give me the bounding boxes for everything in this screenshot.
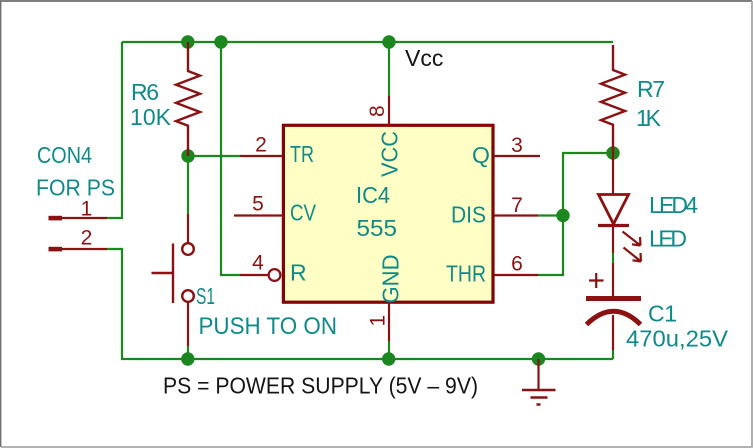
IC4 pin 2 stub: [240, 155, 283, 157]
wire top rail to IC pin 4: [221, 42, 240, 275]
svg-text:GND: GND: [378, 255, 404, 304]
svg-text:1: 1: [367, 315, 390, 327]
IC4 pin 7 stub: [494, 214, 538, 216]
wire left vertical (top rail to CON4 pin 1): [107, 42, 122, 218]
junction R7 / LED / DIS-THR wire: [606, 146, 619, 159]
wire IC pin 6 (THR): [538, 153, 613, 275]
wire S1 to bottom rail: [187, 346, 189, 359]
resistor R7: [601, 45, 625, 153]
svg-text:DIS: DIS: [451, 202, 486, 228]
junction top rail / Vcc pin 8: [382, 35, 395, 48]
svg-text:2: 2: [255, 134, 267, 157]
IC4 pin 3 stub: [494, 155, 540, 157]
wire top rail: [122, 41, 613, 43]
svg-text:5: 5: [252, 193, 264, 216]
svg-text:10K: 10K: [130, 104, 172, 130]
svg-text:555: 555: [357, 215, 398, 241]
IC4 pin 1 stub: [388, 303, 390, 341]
svg-text:PS = POWER SUPPLY (5V – 9V): PS = POWER SUPPLY (5V – 9V): [163, 373, 478, 399]
svg-text:Q: Q: [472, 142, 490, 168]
wire Vcc rail to IC pin 8: [388, 42, 390, 96]
connector CON4: [49, 216, 108, 252]
IC4 pin 4 stub: [240, 274, 269, 276]
svg-text:470u,25V: 470u,25V: [626, 326, 729, 352]
wire C1 to bottom rail: [612, 350, 614, 359]
svg-text:R7: R7: [637, 76, 665, 102]
svg-text:CV: CV: [290, 200, 317, 226]
op IC4 555 body: [283, 125, 493, 302]
svg-text:6: 6: [511, 253, 523, 276]
svg-text:7: 7: [511, 194, 523, 217]
svg-text:R: R: [290, 260, 307, 286]
wire IC pin 1 to bottom rail: [388, 341, 390, 359]
junction IC GND / bottom rail: [382, 352, 395, 365]
svg-text:R6: R6: [131, 79, 159, 105]
svg-text:THR: THR: [446, 261, 486, 287]
svg-text:4: 4: [252, 252, 264, 275]
svg-text:IC4: IC4: [356, 182, 390, 208]
capacitor C1: [586, 263, 641, 350]
svg-text:1K: 1K: [636, 105, 662, 131]
svg-text:LED4: LED4: [649, 192, 698, 218]
svg-text:TR: TR: [290, 141, 314, 167]
wire CON4 pin 2 to bottom rail: [107, 249, 613, 359]
svg-text:PUSH TO ON: PUSH TO ON: [199, 313, 338, 340]
junction node R6 / TR / S1: [181, 149, 194, 162]
pushbutton S1: [152, 214, 194, 346]
LED4 emission arrows: [623, 232, 642, 262]
svg-text:LED: LED: [649, 226, 687, 252]
ground: [522, 359, 556, 405]
junction top rail / pin4 branch: [214, 35, 227, 48]
resistor R6: [176, 42, 200, 156]
junction top rail / R6: [181, 35, 194, 48]
svg-text:8: 8: [366, 105, 389, 117]
wire R6/TR node to IC pin 2: [188, 155, 240, 157]
svg-text:2: 2: [81, 227, 93, 250]
wire IC pin 7 (DIS): [538, 214, 563, 216]
junction S1 / bottom rail: [181, 352, 194, 365]
IC4 pin 6 stub: [494, 274, 538, 276]
IC4 pin 5 stub: [234, 214, 283, 216]
svg-text:Vcc: Vcc: [405, 45, 443, 71]
svg-text:3: 3: [511, 134, 523, 157]
junction ground symbol / bottom rail: [532, 352, 545, 365]
IC4 pin 4 bubble: [269, 269, 281, 281]
LED LED4: [598, 153, 629, 253]
wire LED cathode to C1: [612, 253, 614, 263]
svg-text:CON4: CON4: [37, 142, 92, 168]
svg-text:C1: C1: [648, 301, 677, 327]
junction DIS on vertical wire: [556, 209, 569, 222]
svg-text:VCC: VCC: [377, 131, 403, 177]
svg-text:FOR PS: FOR PS: [36, 175, 115, 201]
IC4 pin 8 stub: [388, 96, 390, 125]
wire R6 node down to S1: [187, 156, 189, 214]
svg-text:1: 1: [81, 198, 93, 221]
svg-text:S1: S1: [196, 283, 215, 309]
